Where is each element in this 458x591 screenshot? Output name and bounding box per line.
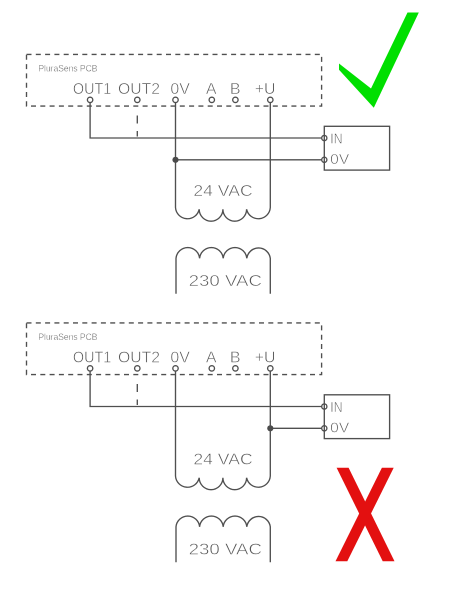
transformer secondary coil 24 VAC (bottom) xyxy=(176,476,271,490)
svg-text:OUT1: OUT1 xyxy=(73,350,111,367)
svg-text:B: B xyxy=(230,81,241,98)
green checkmark (correct wiring) xyxy=(339,13,419,108)
terminal +U (top) xyxy=(268,97,273,102)
svg-text:0V: 0V xyxy=(330,421,349,437)
terminal OUT2 (bottom) xyxy=(135,366,140,371)
wire OUT2 dashed stub (bottom) xyxy=(136,384,138,405)
terminal 0V (bottom) xyxy=(173,366,178,371)
svg-text:0V: 0V xyxy=(170,81,190,98)
PCB dashed outline (top diagram) xyxy=(27,54,322,106)
wire +U down to transformer (top) xyxy=(269,103,271,208)
wire +U down to transformer (bottom) xyxy=(269,371,271,476)
transformer primary coil 230 VAC (top) xyxy=(176,248,270,294)
wire OUT1 to controller IN (bottom) xyxy=(90,371,322,406)
terminal B (top) xyxy=(233,97,238,102)
terminal OUT1 (top) xyxy=(87,97,92,102)
terminal A (top) xyxy=(209,97,214,102)
junction dot on +U wire (bottom) xyxy=(267,425,273,431)
svg-text:0V: 0V xyxy=(170,350,190,367)
svg-text:+U: +U xyxy=(255,81,276,98)
wire OUT1 to controller IN (top) xyxy=(90,103,322,138)
svg-text:0V: 0V xyxy=(330,152,349,168)
svg-text:24 VAC: 24 VAC xyxy=(193,452,252,469)
terminal A (bottom) xyxy=(209,366,214,371)
wire OUT2 dashed stub (top) xyxy=(136,116,138,137)
wire 0V junction to controller 0V (top) xyxy=(176,159,322,161)
controller box (bottom) xyxy=(324,395,389,439)
terminal OUT1 (bottom) xyxy=(87,366,92,371)
svg-text:OUT1: OUT1 xyxy=(73,81,111,98)
svg-text:B: B xyxy=(230,350,241,367)
svg-text:230 VAC: 230 VAC xyxy=(189,273,262,290)
svg-text:A: A xyxy=(206,81,217,98)
transformer secondary coil 24 VAC (top) xyxy=(176,208,271,222)
wire +U junction to controller 0V (bottom) xyxy=(270,427,321,429)
terminal 0V (top) xyxy=(173,97,178,102)
terminal IN on controller (top) xyxy=(322,135,327,140)
svg-text:+U: +U xyxy=(255,350,276,367)
svg-text:OUT2: OUT2 xyxy=(118,81,160,98)
svg-text:PluraSens PCB: PluraSens PCB xyxy=(38,332,97,343)
svg-text:IN: IN xyxy=(330,400,342,416)
terminal 0V on controller (top) xyxy=(322,157,327,162)
terminal +U (bottom) xyxy=(268,366,273,371)
controller box (top) xyxy=(324,126,389,170)
red X mark (incorrect wiring) xyxy=(336,468,395,561)
terminal 0V on controller (bottom) xyxy=(322,426,327,431)
wire 0V down to transformer (top) xyxy=(175,103,177,208)
transformer primary coil 230 VAC (bottom) xyxy=(176,516,270,562)
svg-text:24 VAC: 24 VAC xyxy=(193,183,252,200)
terminal OUT2 (top) xyxy=(135,97,140,102)
svg-text:A: A xyxy=(206,350,217,367)
svg-text:PluraSens PCB: PluraSens PCB xyxy=(38,64,97,75)
junction dot on 0V wire (top) xyxy=(172,157,178,163)
terminal IN on controller (bottom) xyxy=(322,404,327,409)
wire 0V down to transformer (bottom) xyxy=(175,371,177,476)
svg-text:OUT2: OUT2 xyxy=(118,350,160,367)
PCB dashed outline (bottom diagram) xyxy=(27,323,322,375)
svg-text:IN: IN xyxy=(330,132,342,148)
svg-text:230 VAC: 230 VAC xyxy=(189,542,262,559)
terminal B (bottom) xyxy=(233,366,238,371)
